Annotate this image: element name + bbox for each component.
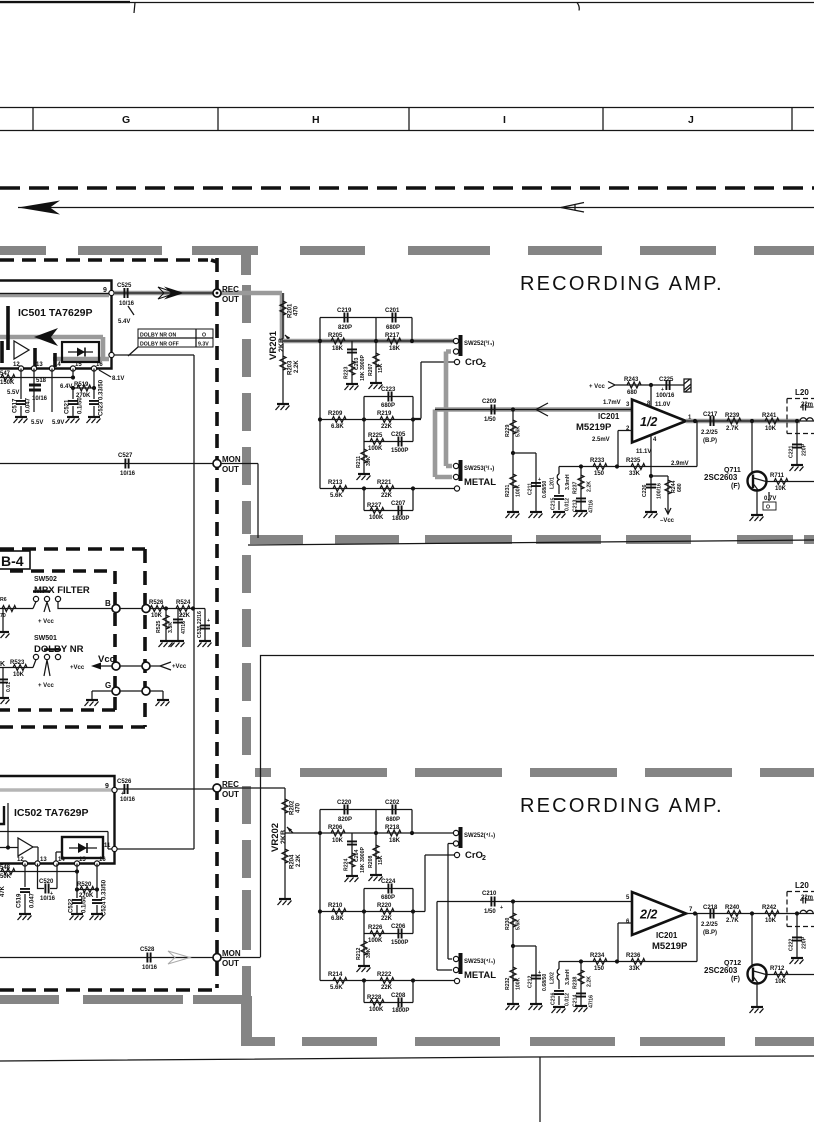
svg-text:SW502: SW502 (34, 576, 57, 583)
left dolby block dashed border (0, 258, 217, 990)
svg-text:10/16: 10/16 (119, 301, 135, 307)
resistor R229 (512, 410, 514, 454)
metal path link (437, 902, 452, 971)
svg-text:C535 22/16: C535 22/16 (197, 611, 203, 638)
svg-text:R711: R711 (770, 473, 785, 479)
resistor R711 (774, 479, 788, 485)
switch SW253 (459, 460, 463, 481)
mid wire R209/R219 (320, 419, 421, 421)
svg-text:12: 12 (17, 857, 24, 863)
internal op-amp triangle (14, 341, 29, 359)
chassis hatch (684, 379, 691, 392)
ground (14, 417, 28, 423)
REC line (lower) (117, 788, 217, 790)
resistor R208 to ground (375, 833, 377, 874)
node B (112, 605, 120, 613)
svg-text:SW252(³/₄): SW252(³/₄) (464, 340, 494, 347)
svg-text:2SC2603: 2SC2603 (704, 966, 738, 975)
svg-text:22K: 22K (381, 493, 393, 499)
svg-text:+ Vcc: + Vcc (38, 619, 55, 625)
svg-text:16: 16 (96, 362, 103, 368)
svg-text:2.5mV: 2.5mV (592, 437, 610, 443)
svg-text:G: G (105, 681, 111, 690)
svg-text:IC502 TA7629P: IC502 TA7629P (14, 807, 89, 819)
svg-text:R234: R234 (590, 953, 605, 959)
capacitor C524 (96, 864, 98, 914)
svg-text:OUT: OUT (222, 295, 239, 304)
capacitor C212 to ground (535, 946, 537, 1003)
svg-text:+ Vcc: + Vcc (589, 384, 606, 390)
below-block wire (0, 369, 73, 378)
left branch vertical (319, 810, 321, 981)
svg-text:R523: R523 (10, 660, 25, 666)
svg-text:10K: 10K (151, 613, 163, 619)
SW502 wiper to +Vcc (44, 602, 50, 612)
resistor R219 (380, 417, 394, 423)
svg-text:R207: R207 (368, 363, 374, 376)
svg-text:R206: R206 (328, 825, 343, 831)
resistor R548 (edge) (1, 869, 15, 875)
voltage 8.1V (99, 370, 111, 377)
metal path gray link (435, 410, 452, 478)
svg-text:+: + (180, 612, 183, 618)
transistor Q711 (751, 421, 753, 472)
switch common link (448, 844, 453, 960)
svg-text:18K: 18K (389, 838, 401, 844)
output line (gray) (686, 419, 800, 424)
pin 15 (74, 861, 79, 866)
svg-text:0.1/50: 0.1/50 (82, 896, 88, 913)
svg-text:–Vcc: –Vcc (660, 518, 675, 524)
resistor R236 (631, 959, 645, 965)
resistor R207 to ground (375, 341, 377, 382)
capacitor C520 (38, 864, 58, 889)
svg-text:0.68/50: 0.68/50 (542, 974, 548, 991)
svg-text:OUT: OUT (222, 790, 239, 799)
R227/C207 loop (364, 489, 413, 511)
svg-text:M5219P: M5219P (576, 422, 612, 433)
svg-text:R238: R238 (573, 976, 579, 989)
svg-text:B: B (105, 599, 111, 608)
IC501 block outline (0, 281, 112, 369)
svg-text:C206: C206 (391, 924, 406, 930)
svg-text:C224: C224 (381, 879, 396, 885)
svg-text:MON: MON (222, 455, 241, 464)
svg-text:+: + (207, 618, 210, 624)
svg-text:1500P: 1500P (391, 448, 408, 454)
svg-text:100K: 100K (516, 484, 522, 497)
CrO2 select wire (413, 362, 454, 419)
svg-text:10/16: 10/16 (120, 797, 136, 803)
svg-text:12: 12 (13, 362, 20, 368)
svg-text:2SC2603: 2SC2603 (704, 473, 738, 482)
internal bar to pin14 (53, 353, 57, 367)
B-4 outer dashed box (0, 549, 145, 727)
resistor R222 (380, 978, 394, 984)
resistor R210 (332, 909, 346, 915)
svg-text:8.1V: 8.1V (112, 376, 124, 382)
svg-text:R242: R242 (762, 905, 777, 911)
svg-text:C521: C521 (65, 399, 71, 414)
resistor R520 (77, 889, 97, 891)
svg-text:10K: 10K (765, 426, 777, 432)
svg-text:H: H (312, 114, 320, 126)
svg-text:680P: 680P (386, 817, 400, 823)
svg-text:1.7mV: 1.7mV (603, 400, 621, 406)
svg-text:SW501: SW501 (34, 635, 57, 642)
C223 loop (364, 397, 413, 420)
svg-text:DOLBY NR OFF: DOLBY NR OFF (140, 342, 179, 348)
svg-text:R214: R214 (328, 972, 343, 978)
svg-text:518: 518 (36, 378, 47, 384)
svg-text:R526: R526 (149, 600, 164, 606)
svg-text:1/2: 1/2 (640, 415, 657, 429)
R228/C208 loop (364, 981, 413, 1003)
svg-text:R236: R236 (626, 953, 641, 959)
svg-text:(B.P): (B.P) (703, 438, 717, 444)
svg-text:R525: R525 (156, 620, 162, 633)
svg-text:DOLBY NR ON: DOLBY NR ON (140, 333, 176, 339)
svg-text:C526: C526 (117, 779, 132, 785)
resistor R237 / C213 to ground (580, 467, 582, 511)
svg-text:150K: 150K (0, 380, 15, 386)
svg-text:548: 548 (0, 865, 11, 871)
capacitor C203 / resistor R223 to ground (351, 341, 353, 383)
capacitor C527 (125, 459, 128, 469)
svg-text:R712: R712 (770, 966, 785, 972)
svg-text:G: G (122, 114, 130, 126)
internal arrow (34, 328, 58, 346)
svg-text:+: + (661, 387, 664, 393)
mid solid box boundary (261, 656, 814, 958)
op-amp IC201 (2/2) (632, 892, 686, 935)
resistor R213 (333, 486, 347, 492)
C220/C202 loop top wire (320, 810, 412, 834)
svg-text:C223: C223 (381, 387, 396, 393)
svg-text:2: 2 (482, 855, 486, 862)
capacitor C209 (491, 405, 494, 415)
resistor R238 / C214 to ground (580, 962, 582, 1006)
capacitor C517 (20, 369, 22, 417)
svg-text:M5219P: M5219P (652, 941, 688, 952)
svg-text:B-4: B-4 (1, 553, 24, 569)
svg-text:39K: 39K (366, 948, 372, 958)
svg-text:6.8K: 6.8K (331, 424, 344, 430)
C219/C201 loop top wire (320, 318, 412, 342)
svg-text:IC201: IC201 (598, 412, 620, 421)
top page border line (0, 2, 814, 4)
svg-text:CrO: CrO (465, 850, 483, 861)
svg-text:L20: L20 (795, 881, 809, 890)
svg-text:C519: C519 (17, 893, 23, 908)
svg-text:10/16: 10/16 (32, 396, 48, 402)
svg-text:680: 680 (677, 483, 683, 492)
svg-text:+: + (50, 891, 53, 897)
bottom wire R213/R221 (320, 488, 454, 490)
pin 12 (22, 861, 27, 866)
svg-text:2.2/25: 2.2/25 (701, 922, 718, 928)
record line to opamp (gray) (435, 407, 632, 412)
wire SW502 to node B (58, 602, 112, 609)
feedback network wire (559, 914, 697, 962)
svg-text:L20: L20 (795, 388, 809, 397)
internal thick bar (6, 306, 10, 350)
gray dashed row B (bottom border of recording amp 1) (250, 535, 814, 544)
pin 15 (70, 366, 75, 371)
svg-text:0.7V: 0.7V (764, 496, 776, 502)
svg-text:2.2K: 2.2K (587, 481, 593, 492)
svg-text:OUT: OUT (222, 959, 239, 968)
resistor R547 (edge) (1, 375, 15, 381)
svg-text:22K: 22K (381, 985, 393, 991)
gray dashed vertical border x246 (242, 285, 251, 996)
pin14 stub (51, 369, 53, 413)
capacitor C533 47/16 to ground (177, 609, 179, 641)
svg-text:1500P: 1500P (391, 940, 408, 946)
svg-text:11: 11 (104, 843, 111, 849)
resistor R240 (727, 911, 741, 917)
svg-text:R240: R240 (725, 905, 740, 911)
svg-text:C522: C522 (69, 898, 75, 913)
svg-text:RECORDING AMP.: RECORDING AMP. (520, 273, 724, 295)
capacitor 0.01 to ground (2, 668, 4, 698)
switch SW252 (459, 335, 463, 356)
R225/C205 loop (364, 420, 413, 442)
R226/C206 loop (364, 912, 413, 934)
METAL contact (454, 978, 459, 983)
feedback network wire (559, 421, 697, 467)
svg-text:9.3V: 9.3V (198, 342, 209, 348)
svg-text:OUT: OUT (222, 465, 239, 474)
node B outer (142, 605, 150, 613)
svg-text:470: 470 (296, 802, 302, 813)
svg-text:L201: L201 (550, 477, 556, 489)
svg-text:470: 470 (294, 305, 300, 316)
svg-text:R229: R229 (505, 424, 511, 437)
svg-text:R243: R243 (624, 377, 639, 383)
svg-text:2.7K: 2.7K (726, 426, 739, 432)
internal op-amp triangle (18, 838, 33, 856)
resistor R242 (765, 911, 779, 917)
svg-text:13: 13 (36, 362, 43, 368)
IC502 block outline (0, 776, 115, 864)
svg-text:R212: R212 (356, 947, 362, 960)
svg-text:100K: 100K (368, 938, 383, 944)
svg-text:R220: R220 (377, 903, 392, 909)
svg-text:18K: 18K (332, 346, 344, 352)
svg-text:10/16: 10/16 (40, 896, 56, 902)
svg-text:10K: 10K (13, 672, 25, 678)
resistor R205 (331, 338, 345, 344)
pin4 supply C226/R244 (651, 434, 668, 476)
svg-text:11.0V: 11.0V (655, 402, 670, 408)
CrO2 contact (454, 852, 459, 857)
svg-text:820P: 820P (338, 817, 352, 823)
svg-text:(F): (F) (731, 483, 740, 490)
svg-text:SW253(³/₄): SW253(³/₄) (464, 465, 494, 472)
svg-text:J: J (688, 114, 694, 126)
svg-text:9: 9 (105, 783, 109, 790)
L204 dashed box (787, 892, 814, 927)
B-4 label box (0, 551, 30, 569)
C224 loop (364, 889, 413, 912)
svg-text:5.4V: 5.4V (118, 319, 130, 325)
svg-text:O: O (202, 333, 206, 339)
svg-text:C525: C525 (117, 283, 132, 289)
svg-text:47/16: 47/16 (589, 995, 595, 1008)
svg-text:+ Vcc: + Vcc (38, 683, 55, 689)
svg-text:C220: C220 (337, 800, 352, 806)
coil L202 / C216 to ground (558, 962, 560, 970)
svg-text:680P: 680P (381, 895, 395, 901)
svg-text:100K: 100K (516, 977, 522, 990)
svg-text:R204: R204 (290, 854, 296, 869)
svg-text:11.1V: 11.1V (636, 449, 651, 455)
svg-text:10/16: 10/16 (120, 471, 136, 477)
svg-text:22K: 22K (381, 916, 393, 922)
svg-text:47K: 47K (0, 885, 6, 897)
svg-text:R217: R217 (385, 333, 400, 339)
svg-text:547: 547 (0, 371, 11, 377)
svg-text:0.68/50: 0.68/50 (542, 481, 548, 498)
svg-text:C201: C201 (385, 308, 400, 314)
resistor R523 (0, 660, 36, 668)
resistor R211 to ground (363, 442, 365, 474)
op-amp IC201 (1/2) (632, 400, 686, 443)
svg-text:680P: 680P (381, 403, 395, 409)
svg-text:C217: C217 (703, 412, 718, 418)
capacitor C202 (392, 805, 395, 815)
svg-text:10/16: 10/16 (142, 965, 158, 971)
svg-text:C202: C202 (385, 800, 400, 806)
internal box fragment (0, 806, 4, 824)
svg-text:R524: R524 (176, 600, 191, 606)
svg-text:RECORDING AMP.: RECORDING AMP. (520, 795, 724, 817)
bottom wire R214/R222 (320, 980, 454, 982)
svg-text:R237: R237 (573, 481, 579, 494)
svg-text:100K: 100K (368, 446, 383, 452)
svg-text:C517: C517 (13, 398, 19, 413)
capacitor C521 (72, 388, 74, 416)
svg-text:13: 13 (40, 857, 47, 863)
svg-text:1/50: 1/50 (484, 909, 496, 915)
svg-text:18K 3900P: 18K 3900P (360, 847, 366, 873)
svg-text:C523 0.33/50: C523 0.33/50 (99, 379, 105, 416)
svg-text:C226: C226 (642, 484, 648, 497)
svg-text:R221: R221 (377, 480, 392, 486)
svg-text:+Vcc: +Vcc (172, 664, 187, 670)
svg-text:0.1/50: 0.1/50 (78, 397, 84, 414)
svg-text:2/2: 2/2 (639, 908, 657, 922)
svg-text:C218: C218 (703, 905, 718, 911)
svg-text:R520: R520 (77, 882, 92, 888)
pin 14 (49, 366, 54, 371)
internal bus lower with arrow (0, 337, 109, 359)
long dashed separator line (0, 186, 814, 190)
svg-text:IC201: IC201 (656, 931, 678, 940)
resistor R239 (727, 418, 741, 424)
resistor R519 (73, 387, 94, 389)
svg-text:C225: C225 (659, 377, 674, 383)
svg-text:+: + (121, 791, 124, 797)
pin 13 (31, 366, 36, 371)
svg-text:C219: C219 (337, 308, 352, 314)
svg-text:2.2K: 2.2K (587, 976, 593, 987)
svg-text:2.7K: 2.7K (726, 918, 739, 924)
resistor R220 (380, 909, 394, 915)
svg-text:R230: R230 (505, 917, 511, 930)
capacitor C225 (666, 380, 669, 390)
svg-text:2: 2 (482, 362, 486, 369)
MON line (lower) (0, 957, 217, 959)
svg-text:10K: 10K (775, 486, 787, 492)
svg-text:C211: C211 (528, 483, 534, 495)
svg-text:R222: R222 (377, 972, 392, 978)
svg-text:33K: 33K (629, 966, 641, 972)
svg-text:1800P: 1800P (392, 516, 409, 522)
SW501 wiper to +Vcc (44, 660, 50, 676)
capacitor C210 (491, 897, 494, 907)
resistor R232 to ground (512, 946, 514, 1003)
svg-text:0.01: 0.01 (6, 682, 12, 692)
svg-text:CrO: CrO (465, 357, 483, 368)
gray dashed row A (top border of recording amp 1) (0, 246, 814, 275)
svg-text:R225: R225 (368, 433, 383, 439)
output line (686, 913, 814, 915)
capacitor C201 (392, 313, 395, 323)
capacitor C211 to ground (535, 453, 537, 511)
svg-text:R209: R209 (328, 411, 343, 417)
capacitor C528 (147, 953, 150, 963)
svg-text:9: 9 (103, 287, 107, 294)
svg-text:2.2K: 2.2K (294, 360, 300, 373)
svg-text:0.047: 0.047 (26, 397, 32, 413)
svg-text:15: 15 (75, 362, 82, 368)
open arrowhead on line (536, 403, 548, 416)
svg-text:R241: R241 (762, 413, 777, 419)
pin 16 (91, 366, 96, 371)
below-block wire (0, 864, 77, 872)
svg-text:C216: C216 (551, 992, 557, 1005)
signal arrow on REC line (164, 287, 184, 300)
potentiometer VR201 (282, 293, 284, 403)
pin 11 (112, 846, 117, 851)
resistor R524 (176, 606, 190, 612)
svg-text:L202: L202 (550, 972, 556, 984)
svg-text:K: K (0, 661, 5, 668)
svg-text:2.2/25: 2.2/25 (701, 430, 718, 436)
svg-text:C527: C527 (118, 453, 133, 459)
wire MON to border (221, 464, 258, 539)
svg-text:18K 3900P: 18K 3900P (360, 355, 366, 381)
svg-text:1/50: 1/50 (484, 417, 496, 423)
gray dashed row E (left, below dolby block) (0, 995, 248, 1004)
svg-text:R6: R6 (0, 597, 7, 603)
resistor R206 (331, 830, 345, 836)
svg-text:5.6K: 5.6K (516, 426, 522, 437)
REC line (gray path) (114, 291, 217, 296)
node REC OUT (lower) (213, 784, 221, 792)
svg-text:C207: C207 (391, 501, 406, 507)
svg-text:METAL: METAL (464, 970, 496, 981)
svg-text:50K: 50K (0, 874, 12, 880)
svg-text:14: 14 (54, 362, 61, 368)
pin 14 (53, 861, 58, 866)
internal bus line (0, 788, 112, 792)
resistor R214 (333, 978, 347, 984)
svg-text:C221: C221 (789, 445, 795, 458)
svg-text:+: + (538, 477, 541, 483)
